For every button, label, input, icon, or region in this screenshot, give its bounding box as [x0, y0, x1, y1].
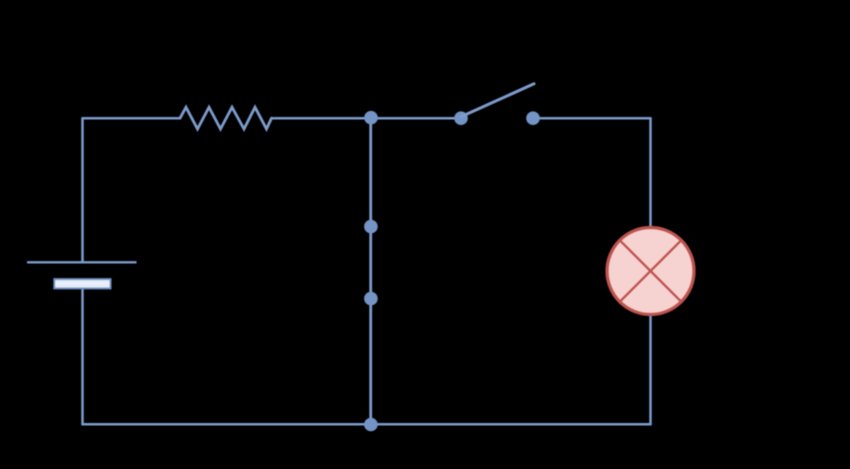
node dot mid lower	[364, 292, 378, 306]
wire resistor to node junction	[272, 117, 371, 120]
lamp L1 cross line \	[620, 240, 681, 301]
lamp L1 circle	[607, 228, 694, 315]
lamp L1 cross line /	[620, 240, 681, 301]
wire right vertical (to lamp)	[649, 118, 652, 424]
node dot top junction	[364, 111, 378, 125]
wire left vertical lower (battery to bottom)	[81, 289, 84, 425]
battery short plate (negative)	[54, 279, 110, 289]
wire bottom	[83, 423, 651, 426]
wire middle vertical branch	[369, 118, 372, 424]
switch S1 right contact dot	[526, 111, 540, 125]
switch S1 lever (open)	[462, 84, 535, 117]
node dot mid upper	[364, 220, 378, 234]
node dot bottom junction	[364, 418, 378, 432]
wire switch to top-right corner	[533, 117, 651, 120]
switch S1 left contact dot	[454, 111, 468, 125]
battery long plate (positive)	[27, 261, 137, 263]
wire junction to switch	[371, 117, 461, 120]
wire top left (battery to resistor)	[83, 117, 181, 120]
wire left vertical upper (to battery)	[81, 118, 84, 262]
resistor R (zigzag)	[180, 107, 272, 129]
